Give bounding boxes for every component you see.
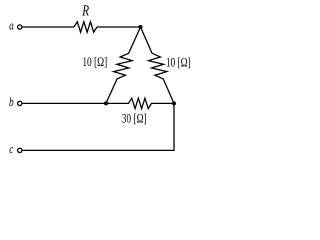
- node top: [138, 25, 142, 29]
- resistor 30ohm: [106, 98, 174, 108]
- svg-text:b: b: [9, 95, 14, 109]
- svg-text:R: R: [82, 3, 90, 20]
- svg-text:a: a: [9, 18, 14, 32]
- svg-text:10 [Ω]: 10 [Ω]: [82, 54, 107, 69]
- node bottom-left: [104, 101, 108, 105]
- node bottom-right: [172, 101, 176, 105]
- resistor right 10ohm: [141, 27, 175, 103]
- wire: [22, 102, 106, 104]
- wire: [22, 26, 74, 28]
- resistor left 10ohm: [106, 27, 141, 103]
- terminal a: [18, 25, 22, 29]
- wire: [97, 26, 141, 28]
- svg-text:c: c: [9, 142, 14, 156]
- terminal c: [18, 148, 22, 152]
- svg-text:10 [Ω]: 10 [Ω]: [166, 54, 191, 69]
- wire: [22, 103, 174, 150]
- resistor R: [74, 22, 97, 32]
- terminal b: [18, 101, 22, 105]
- svg-text:30 [Ω]: 30 [Ω]: [122, 110, 147, 125]
